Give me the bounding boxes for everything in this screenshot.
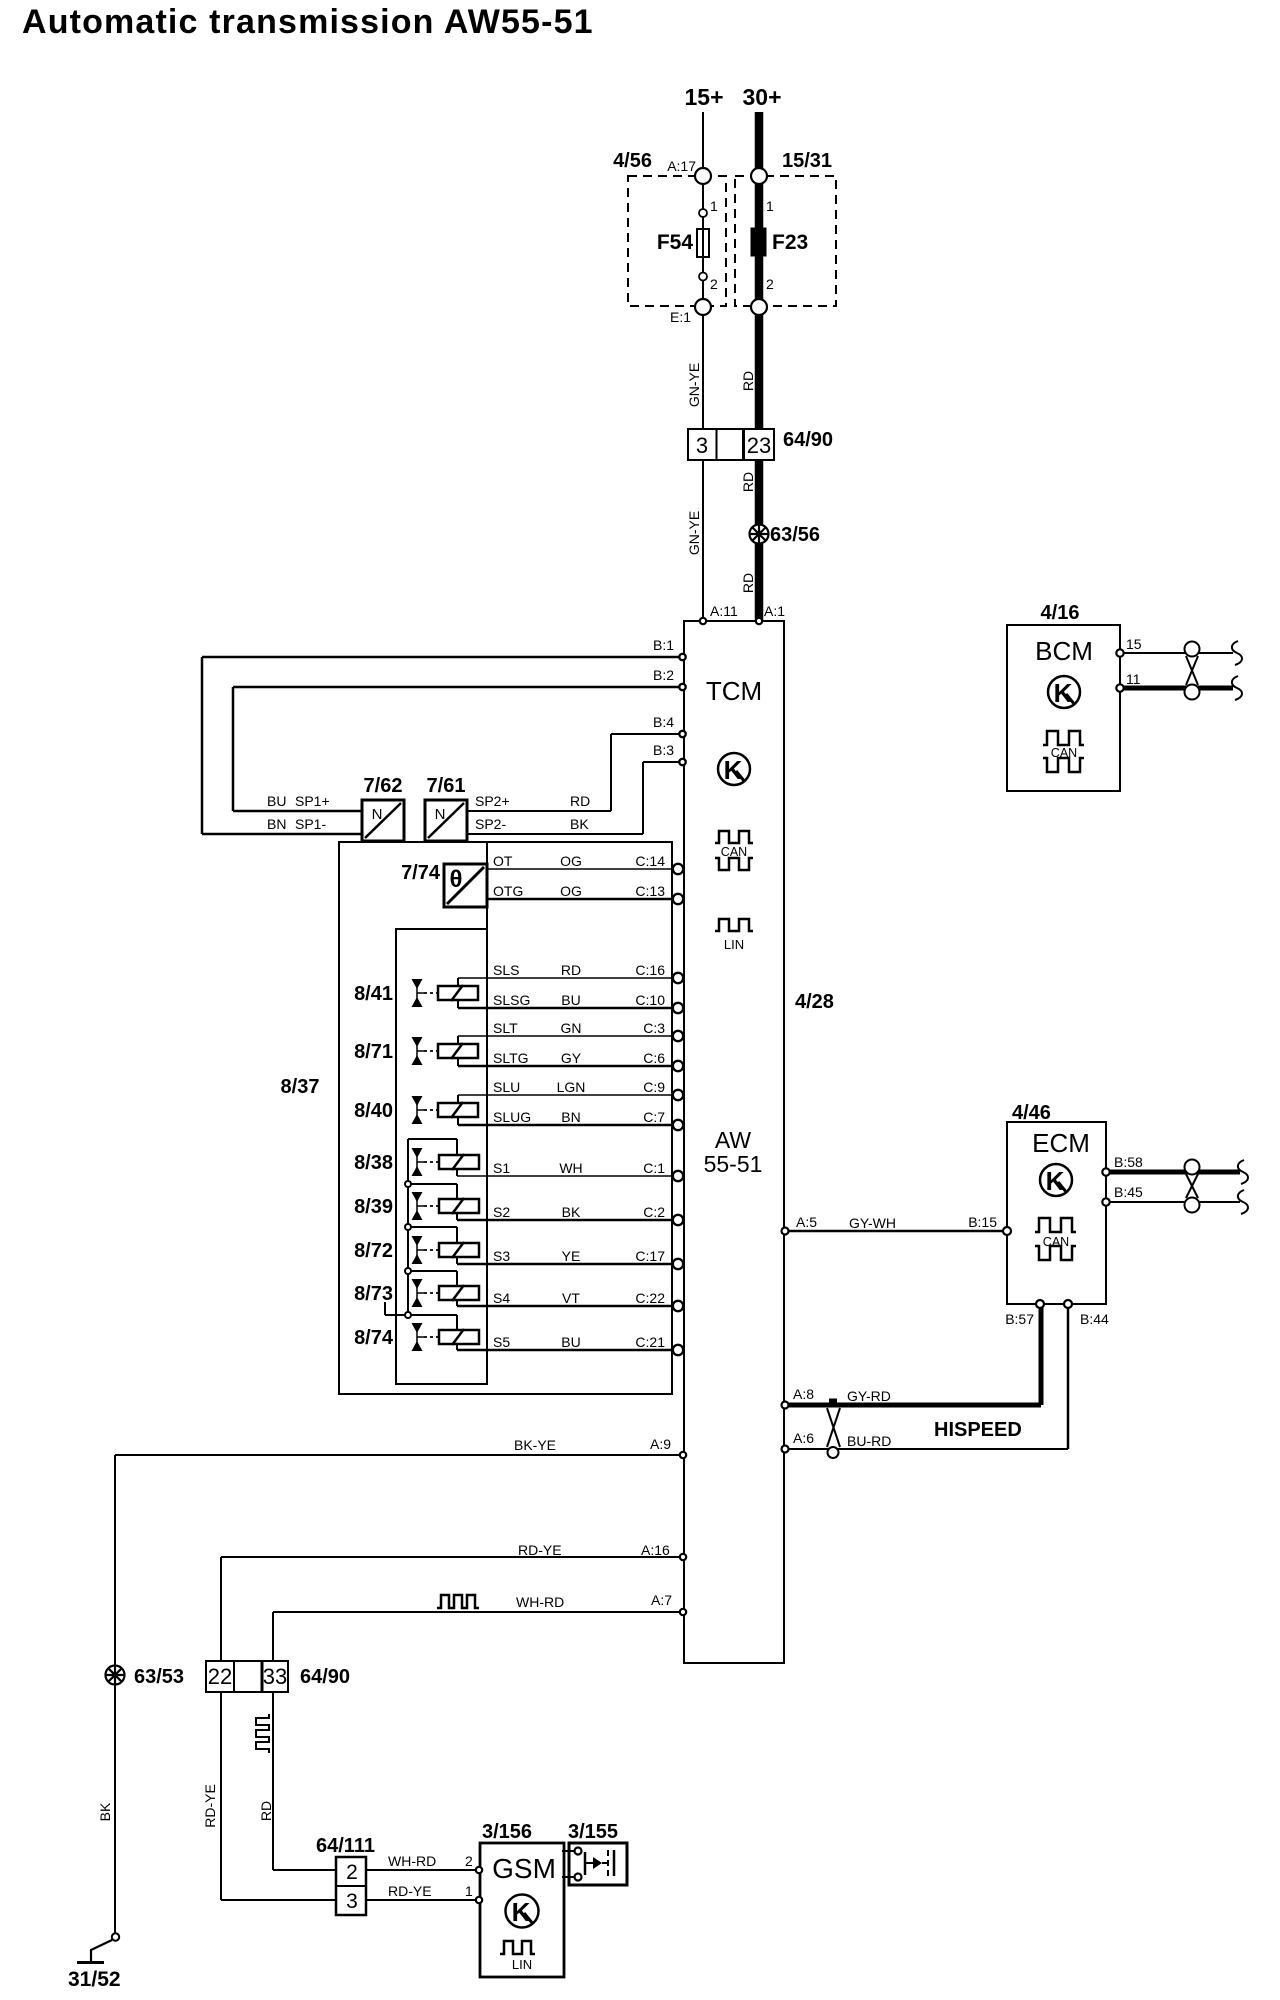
svg-text:31/52: 31/52 <box>68 1968 121 1991</box>
svg-text:8/38: 8/38 <box>354 1152 393 1174</box>
svg-text:GN: GN <box>561 1020 582 1036</box>
svg-text:15: 15 <box>1126 636 1142 652</box>
svg-text:S4: S4 <box>493 1290 510 1306</box>
svg-text:22: 22 <box>208 1664 232 1689</box>
svg-text:8/73: 8/73 <box>354 1283 393 1305</box>
svg-text:8/40: 8/40 <box>354 1100 393 1122</box>
svg-text:8/39: 8/39 <box>354 1196 393 1218</box>
svg-text:YE: YE <box>562 1248 581 1264</box>
svg-text:7/74: 7/74 <box>401 862 441 884</box>
svg-text:RD-YE: RD-YE <box>518 1542 562 1558</box>
svg-text:RD-YE: RD-YE <box>388 1883 432 1899</box>
svg-text:63/56: 63/56 <box>770 524 820 546</box>
svg-text:SLSG: SLSG <box>493 992 530 1008</box>
svg-text:C:3: C:3 <box>643 1020 665 1036</box>
svg-text:C:10: C:10 <box>635 992 665 1008</box>
svg-text:B:15: B:15 <box>968 1214 997 1230</box>
svg-text:TCM: TCM <box>706 676 762 706</box>
svg-text:4/46: 4/46 <box>1012 1102 1051 1124</box>
svg-text:55-51: 55-51 <box>704 1151 763 1177</box>
svg-text:F54: F54 <box>657 231 694 254</box>
svg-text:3: 3 <box>696 433 708 458</box>
svg-text:C:14: C:14 <box>635 853 665 869</box>
svg-text:OG: OG <box>560 853 582 869</box>
svg-text:C:16: C:16 <box>635 962 665 978</box>
svg-text:GSM: GSM <box>492 1853 556 1884</box>
svg-text:BCM: BCM <box>1035 636 1093 666</box>
svg-text:GN-YE: GN-YE <box>686 511 702 555</box>
svg-text:SLUG: SLUG <box>493 1109 531 1125</box>
svg-text:LGN: LGN <box>557 1079 586 1095</box>
svg-text:BU: BU <box>561 1334 580 1350</box>
svg-text:S3: S3 <box>493 1248 510 1264</box>
svg-text:2: 2 <box>465 1853 473 1869</box>
svg-text:GN-YE: GN-YE <box>686 363 702 407</box>
svg-text:S2: S2 <box>493 1204 510 1220</box>
svg-text:C:6: C:6 <box>643 1050 665 1066</box>
svg-text:BU: BU <box>267 793 286 809</box>
svg-text:SP1+: SP1+ <box>295 793 330 809</box>
svg-text:1: 1 <box>465 1883 473 1899</box>
svg-text:8/74: 8/74 <box>354 1327 394 1349</box>
svg-text:N: N <box>372 806 383 823</box>
svg-text:GY-RD: GY-RD <box>847 1388 891 1404</box>
svg-text:N: N <box>435 806 446 823</box>
svg-text:C:17: C:17 <box>635 1248 665 1264</box>
svg-text:64/90: 64/90 <box>300 1666 350 1688</box>
svg-text:VT: VT <box>562 1290 580 1306</box>
svg-text:B:58: B:58 <box>1114 1154 1143 1170</box>
svg-text:HISPEED: HISPEED <box>934 1419 1022 1441</box>
svg-text:8/41: 8/41 <box>354 983 393 1005</box>
svg-text:K: K <box>724 755 743 785</box>
svg-text:63/53: 63/53 <box>134 1666 184 1688</box>
svg-text:A:9: A:9 <box>650 1436 671 1452</box>
svg-text:RD: RD <box>740 371 756 391</box>
svg-text:RD: RD <box>740 573 756 593</box>
svg-text:RD: RD <box>561 962 581 978</box>
svg-text:S5: S5 <box>493 1334 510 1350</box>
svg-text:A:17: A:17 <box>667 158 696 174</box>
svg-text:B:3: B:3 <box>653 742 674 758</box>
svg-text:E:1: E:1 <box>670 309 691 325</box>
svg-text:1: 1 <box>710 198 718 214</box>
svg-text:OTG: OTG <box>493 883 523 899</box>
svg-text:A:5: A:5 <box>796 1214 817 1230</box>
svg-text:SP1-: SP1- <box>295 816 326 832</box>
svg-text:C:13: C:13 <box>635 883 665 899</box>
svg-text:30+: 30+ <box>742 84 781 110</box>
svg-text:F23: F23 <box>772 231 808 254</box>
svg-text:C:2: C:2 <box>643 1204 665 1220</box>
svg-text:S1: S1 <box>493 1160 510 1176</box>
svg-text:4/56: 4/56 <box>613 150 652 172</box>
svg-text:BK: BK <box>562 1204 581 1220</box>
svg-text:64/111: 64/111 <box>316 1835 375 1857</box>
svg-text:SLS: SLS <box>493 962 519 978</box>
svg-text:K: K <box>1046 1166 1065 1196</box>
svg-text:Automatic transmission AW55-51: Automatic transmission AW55-51 <box>22 3 594 41</box>
svg-text:BU-RD: BU-RD <box>847 1433 891 1449</box>
svg-text:8/72: 8/72 <box>354 1240 393 1262</box>
svg-text:SP2+: SP2+ <box>475 793 510 809</box>
svg-text:RD-YE: RD-YE <box>202 1784 218 1828</box>
svg-text:BN: BN <box>267 816 286 832</box>
svg-text:7/61: 7/61 <box>427 775 466 797</box>
svg-text:15/31: 15/31 <box>782 150 832 172</box>
svg-text:2: 2 <box>346 1861 358 1884</box>
svg-text:A:7: A:7 <box>651 1592 672 1608</box>
svg-text:B:45: B:45 <box>1114 1184 1143 1200</box>
svg-text:8/37: 8/37 <box>281 1076 320 1098</box>
svg-text:θ: θ <box>450 866 463 893</box>
svg-text:WH-RD: WH-RD <box>516 1594 564 1610</box>
svg-text:RD: RD <box>258 1801 274 1821</box>
svg-text:LIN: LIN <box>512 1957 532 1972</box>
svg-text:C:1: C:1 <box>643 1160 665 1176</box>
svg-text:C:21: C:21 <box>635 1334 665 1350</box>
svg-text:A:8: A:8 <box>793 1386 814 1402</box>
svg-text:SP2-: SP2- <box>475 816 506 832</box>
svg-text:SLU: SLU <box>493 1079 520 1095</box>
svg-text:AW: AW <box>715 1127 751 1153</box>
svg-text:2: 2 <box>766 276 774 292</box>
svg-text:LIN: LIN <box>724 937 744 952</box>
svg-text:B:2: B:2 <box>653 667 674 683</box>
svg-text:C:7: C:7 <box>643 1109 665 1125</box>
svg-text:3: 3 <box>346 1890 358 1913</box>
svg-text:WH: WH <box>559 1160 582 1176</box>
svg-text:64/90: 64/90 <box>783 429 833 451</box>
svg-text:K: K <box>512 1897 531 1927</box>
svg-text:K: K <box>1054 678 1073 708</box>
svg-text:BN: BN <box>561 1109 580 1125</box>
svg-text:BK: BK <box>97 1802 113 1821</box>
svg-text:4/16: 4/16 <box>1041 602 1080 624</box>
svg-text:B:57: B:57 <box>1005 1311 1034 1327</box>
svg-text:OG: OG <box>560 883 582 899</box>
svg-text:RD: RD <box>740 472 756 492</box>
svg-text:7/62: 7/62 <box>364 775 403 797</box>
svg-text:3/155: 3/155 <box>568 1821 618 1843</box>
svg-text:RD: RD <box>570 793 590 809</box>
svg-text:8/71: 8/71 <box>354 1041 393 1063</box>
svg-text:SLTG: SLTG <box>493 1050 529 1066</box>
svg-text:33: 33 <box>263 1664 287 1689</box>
svg-text:SLT: SLT <box>493 1020 518 1036</box>
svg-text:ECM: ECM <box>1032 1128 1090 1158</box>
svg-text:B:44: B:44 <box>1080 1311 1109 1327</box>
svg-text:GY-WH: GY-WH <box>849 1215 896 1231</box>
svg-text:A:16: A:16 <box>641 1542 670 1558</box>
svg-text:3/156: 3/156 <box>482 1821 532 1843</box>
svg-text:OT: OT <box>493 853 513 869</box>
svg-text:4/28: 4/28 <box>795 991 834 1013</box>
svg-text:23: 23 <box>747 433 771 458</box>
svg-text:A:1: A:1 <box>764 603 785 619</box>
svg-text:A:6: A:6 <box>793 1430 814 1446</box>
svg-text:WH-RD: WH-RD <box>388 1853 436 1869</box>
svg-text:BK-YE: BK-YE <box>514 1437 556 1453</box>
svg-text:A:11: A:11 <box>710 603 738 619</box>
svg-text:1: 1 <box>766 198 774 214</box>
svg-text:C:9: C:9 <box>643 1079 665 1095</box>
svg-text:BK: BK <box>570 816 589 832</box>
svg-text:GY: GY <box>561 1050 582 1066</box>
svg-text:B:4: B:4 <box>653 714 674 730</box>
svg-text:C:22: C:22 <box>635 1290 665 1306</box>
svg-text:2: 2 <box>710 276 718 292</box>
svg-text:11: 11 <box>1126 671 1141 687</box>
svg-text:15+: 15+ <box>684 84 723 110</box>
svg-text:BU: BU <box>561 992 580 1008</box>
svg-text:B:1: B:1 <box>653 637 674 653</box>
